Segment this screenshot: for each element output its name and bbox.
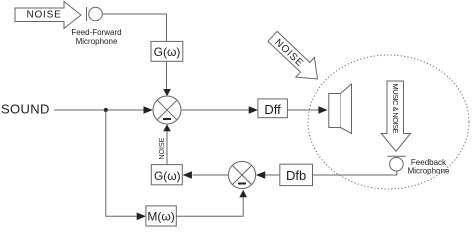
wire Dfb to summing junction S2	[256, 171, 280, 179]
summing junction S1	[153, 96, 181, 124]
wire S2 to G2	[183, 171, 229, 179]
svg-text:Microphone: Microphone	[408, 167, 450, 176]
wire S1 to Dff	[181, 106, 258, 114]
wire SOUND to S1	[54, 106, 153, 114]
block arrow MUSIC &amp; NOISE (down toward feedback mic)	[381, 81, 410, 151]
wire node to M box	[106, 110, 146, 220]
box Dff	[258, 99, 288, 118]
svg-text:MUSIC & NOISE: MUSIC & NOISE	[391, 84, 400, 134]
svg-text:Dff: Dff	[264, 102, 281, 117]
svg-text:SOUND: SOUND	[1, 101, 50, 116]
feed-forward microphone	[87, 7, 103, 21]
wire G2 to S1 (anti-noise)	[163, 124, 171, 165]
svg-text:M(ω): M(ω)	[147, 209, 174, 223]
label Feed-Forward Microphone	[71, 28, 121, 46]
svg-text:G(ω): G(ω)	[154, 169, 181, 183]
wire G1 to summing junction S1	[163, 62, 171, 97]
rotated block arrow NOISE (ambient noise input)	[263, 27, 327, 89]
feedback microphone	[387, 156, 405, 171]
wire Dff to speaker	[287, 106, 327, 114]
svg-text:NOISE: NOISE	[26, 10, 61, 21]
summing junction S2	[228, 161, 255, 188]
wire mic to G1	[102, 14, 166, 42]
wire M box to S2	[176, 190, 247, 216]
svg-text:NOISE: NOISE	[159, 137, 166, 159]
label Feedback Microphone	[408, 158, 450, 176]
block arrow NOISE (feed-forward input)	[15, 2, 81, 29]
speaker	[329, 84, 352, 134]
svg-text:Microphone: Microphone	[76, 37, 118, 46]
svg-text:G(ω): G(ω)	[154, 45, 181, 59]
box G1 G(ω)	[151, 41, 183, 61]
wire feedback mic to Dfb	[313, 171, 397, 175]
box Dfb	[280, 164, 313, 185]
box M M(ω)	[146, 206, 176, 226]
dotted ellipse (quiet zone boundary)	[308, 55, 469, 189]
node junction dot on SOUND line	[104, 108, 108, 112]
svg-text:Dfb: Dfb	[286, 168, 306, 183]
svg-text:Feed-Forward: Feed-Forward	[71, 28, 121, 37]
box G2 G(ω)	[151, 165, 182, 185]
